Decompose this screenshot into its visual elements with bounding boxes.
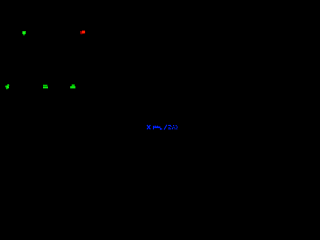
- digit cluster: [168, 125, 171, 126]
- word bar: [154, 127, 160, 129]
- blue timestamp text (bottom right): [147, 125, 178, 130]
- word descender: [160, 128, 161, 130]
- green LED D (small block with top bump): [70, 84, 75, 88]
- glyph X: [147, 125, 150, 129]
- red LED marker (upper middle): [80, 30, 85, 34]
- word stem: [153, 126, 154, 130]
- green LED bars C (equals shape): [43, 85, 48, 89]
- background field: [0, 0, 180, 135]
- slash: [164, 125, 167, 130]
- green LED cluster B (lower left blob): [5, 84, 9, 89]
- green LED marker A (upper left): [22, 31, 26, 35]
